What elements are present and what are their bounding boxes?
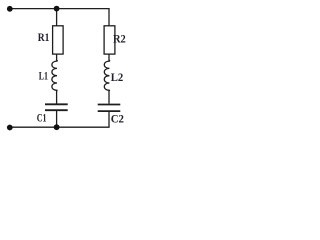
wire junction to R1 — [56, 9, 58, 26]
svg-text:C1: C1 — [37, 112, 47, 124]
capacitor C1 — [45, 103, 68, 105]
wire R2 to L2 — [108, 54, 110, 61]
svg-text:L1: L1 — [39, 71, 48, 83]
resistor R1 — [53, 26, 64, 54]
terminal dot bottom-left — [7, 125, 13, 131]
inductor L1 — [52, 60, 57, 91]
inductor L2 — [104, 60, 109, 91]
wire right vertical to R2 — [108, 9, 110, 26]
capacitor C2 — [98, 104, 121, 106]
svg-text:L2: L2 — [111, 72, 124, 84]
svg-text:C2: C2 — [111, 114, 124, 126]
wire L2 to C2 — [108, 91, 110, 104]
wire C2 to bottom — [108, 112, 110, 127]
wire C1 to bottom — [56, 111, 58, 127]
svg-text:R2: R2 — [113, 34, 126, 46]
wire L1 to C1 — [56, 91, 58, 104]
terminal dot top-left — [7, 6, 13, 12]
resistor R2 — [104, 26, 115, 54]
junction node top — [54, 6, 60, 12]
junction node bottom — [54, 124, 60, 130]
wire R1 to L1 — [56, 54, 58, 61]
wire bottom horizontal — [10, 126, 110, 128]
wire top horizontal — [10, 8, 110, 10]
svg-text:R1: R1 — [38, 32, 50, 44]
